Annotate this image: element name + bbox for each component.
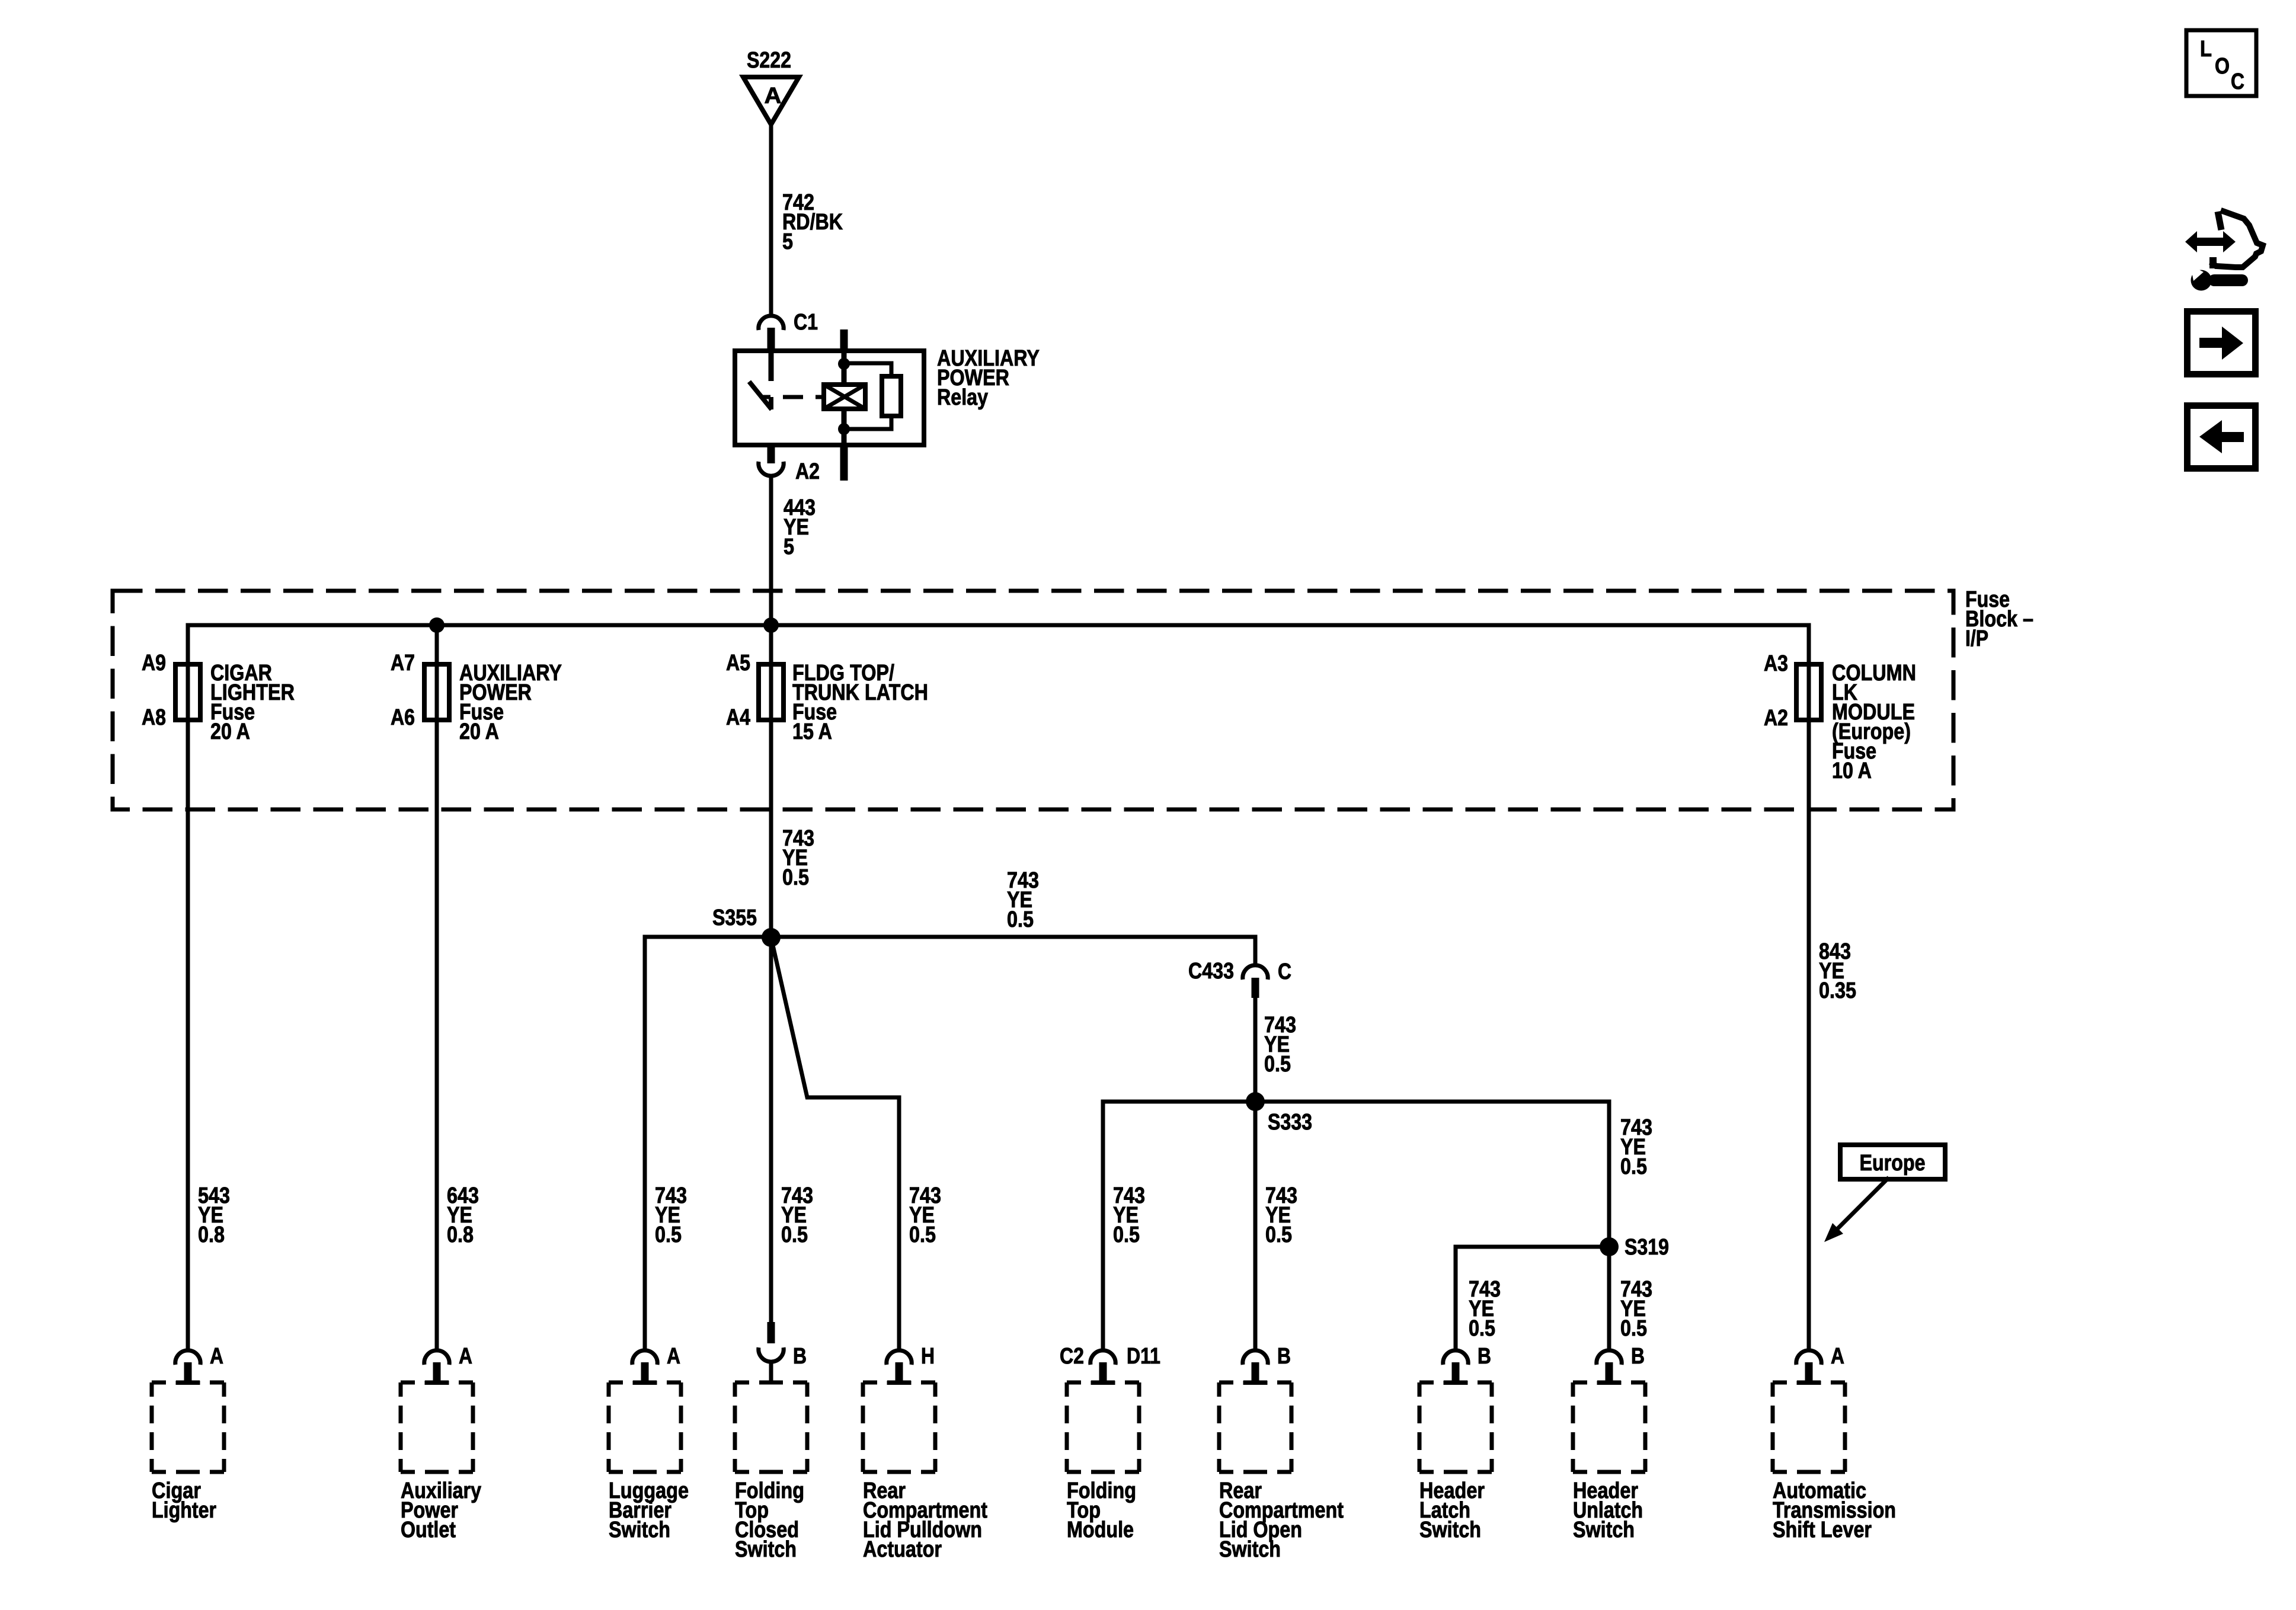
svg-text:0.5: 0.5 [781, 1222, 808, 1247]
svg-text:0.5: 0.5 [1113, 1222, 1140, 1247]
svg-text:0.5: 0.5 [1007, 907, 1034, 932]
svg-text:S333: S333 [1268, 1110, 1312, 1135]
svg-text:Switch: Switch [1573, 1518, 1635, 1542]
svg-text:A2: A2 [1764, 706, 1788, 731]
svg-text:B: B [1631, 1344, 1645, 1369]
svg-text:0.8: 0.8 [198, 1222, 225, 1247]
svg-text:A2: A2 [795, 459, 820, 484]
svg-text:20 A: 20 A [210, 719, 250, 744]
svg-text:Switch: Switch [609, 1518, 670, 1542]
svg-text:A5: A5 [726, 651, 750, 676]
svg-text:Switch: Switch [1419, 1518, 1481, 1542]
svg-text:A: A [667, 1344, 680, 1369]
svg-text:Relay: Relay [937, 385, 988, 410]
svg-text:5: 5 [784, 534, 794, 559]
svg-text:0.5: 0.5 [1620, 1316, 1647, 1341]
svg-text:Actuator: Actuator [863, 1537, 942, 1562]
svg-text:C433: C433 [1188, 959, 1234, 984]
svg-text:0.5: 0.5 [1264, 1052, 1291, 1077]
svg-text:0.5: 0.5 [1469, 1316, 1495, 1341]
svg-text:10 A: 10 A [1832, 758, 1872, 783]
svg-text:15 A: 15 A [792, 719, 832, 744]
svg-text:Outlet: Outlet [401, 1518, 456, 1542]
svg-text:A4: A4 [726, 705, 750, 730]
svg-text:A9: A9 [142, 651, 166, 676]
svg-text:Switch: Switch [1219, 1537, 1281, 1562]
svg-text:0.5: 0.5 [1265, 1222, 1292, 1247]
svg-text:A8: A8 [142, 705, 166, 730]
svg-text:Lighter: Lighter [152, 1498, 216, 1523]
svg-text:Shift Lever: Shift Lever [1773, 1518, 1872, 1542]
svg-text:C: C [1278, 959, 1291, 984]
svg-text:0.8: 0.8 [447, 1222, 474, 1247]
svg-text:Module: Module [1067, 1518, 1134, 1542]
svg-text:Europe: Europe [1860, 1151, 1926, 1176]
svg-text:S319: S319 [1625, 1235, 1669, 1260]
svg-text:D11: D11 [1127, 1344, 1160, 1369]
svg-text:B: B [1478, 1344, 1491, 1369]
svg-text:5: 5 [782, 229, 793, 254]
svg-text:A: A [1831, 1344, 1844, 1369]
svg-text:I/P: I/P [1965, 626, 1988, 651]
svg-text:B: B [1277, 1344, 1291, 1369]
svg-text:C2: C2 [1060, 1344, 1084, 1369]
svg-text:0.5: 0.5 [1620, 1154, 1647, 1179]
svg-text:S222: S222 [747, 48, 791, 73]
svg-text:A: A [459, 1344, 472, 1369]
svg-text:A3: A3 [1764, 651, 1788, 676]
svg-text:L: L [2200, 37, 2212, 62]
svg-text:20 A: 20 A [459, 719, 499, 744]
svg-text:0.35: 0.35 [1819, 978, 1856, 1003]
svg-text:C: C [2231, 69, 2244, 94]
svg-text:0.5: 0.5 [655, 1222, 682, 1247]
svg-text:O: O [2215, 54, 2230, 79]
svg-text:B: B [793, 1344, 807, 1369]
svg-text:S355: S355 [712, 905, 757, 930]
svg-text:A6: A6 [391, 705, 415, 730]
svg-text:H: H [921, 1344, 935, 1369]
svg-text:A7: A7 [391, 651, 415, 676]
svg-text:C1: C1 [794, 310, 818, 335]
svg-text:0.5: 0.5 [909, 1222, 936, 1247]
svg-text:A: A [210, 1344, 223, 1369]
svg-text:Switch: Switch [735, 1537, 797, 1562]
svg-text:0.5: 0.5 [782, 865, 809, 890]
svg-text:A: A [765, 84, 782, 108]
